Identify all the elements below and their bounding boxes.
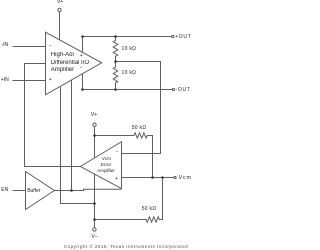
label EN [1, 188, 8, 193]
power V+ terminal top [58, 8, 61, 11]
copyright notice [64, 245, 188, 250]
node junction dots [81, 35, 84, 38]
label 10 kOhm lower [122, 71, 137, 76]
power V+ terminal mid [93, 123, 96, 126]
wire -OUT output [83, 74, 173, 90]
wire EN input [13, 190, 26, 192]
wire V+ to amplifier top [59, 12, 61, 40]
label Vcm error amplifier text [102, 157, 111, 162]
resistor R4 50k lower zigzag [95, 178, 163, 223]
buffer U3 triangle [26, 172, 55, 210]
terminal Vcm [174, 176, 176, 178]
power V- terminal [93, 228, 96, 231]
label V+ mid [91, 113, 97, 118]
label -IN [2, 43, 9, 48]
label main amplifier text [51, 52, 74, 58]
wire feedback midpoint to Vcm error amp inverting input [116, 62, 161, 154]
label +OUT [175, 35, 191, 40]
pin polarity mark plus (+IN) [49, 78, 52, 83]
wire buffer output to amplifiers [54, 189, 121, 190]
wire Vocm control bridge into left edge [25, 64, 81, 167]
resistor R1 10k zigzag [113, 37, 118, 62]
wire Vcm noninverting input to Vcm terminal [122, 177, 174, 179]
pin polarity mark plus (Vcm amp) [115, 177, 118, 182]
wire V- to main amplifier bottom [61, 87, 95, 204]
wire -IN input [13, 46, 46, 48]
label Buffer text [27, 189, 40, 194]
label V- bottom [91, 235, 97, 240]
label 50 kOhm lower [142, 207, 157, 212]
pin polarity mark minus (-IN) [49, 44, 52, 49]
terminal +OUT [172, 35, 174, 37]
op-amp U1 High-Aol Differential I/O Amplifier [46, 32, 102, 95]
terminal -OUT [172, 88, 174, 90]
resistor R2 10k zigzag [113, 62, 118, 90]
pin polarity mark minus (Vcm amp) [116, 150, 119, 155]
op-amp U2 Vcm Error Amplifier [80, 142, 121, 189]
wire V- rail up to Vcm error amp bottom [94, 174, 96, 228]
label -OUT [176, 88, 191, 93]
pin polarity mark minus (-OUT side) [80, 66, 83, 71]
wire +IN input [13, 80, 46, 82]
wire V+ to Vcm error amp top [94, 126, 96, 158]
wire +OUT output [83, 37, 172, 53]
label 10 kOhm upper [122, 47, 137, 52]
label +IN [1, 78, 9, 83]
label Vcm pin [179, 176, 192, 181]
pin polarity mark plus (+OUT side) [80, 54, 83, 59]
label 50 kOhm upper [132, 126, 147, 131]
resistor R3 50k upper zigzag and wire to Vcm node [95, 133, 153, 178]
label V+ top [57, 0, 63, 5]
wire buffer output branch up to main amp [71, 80, 73, 190]
